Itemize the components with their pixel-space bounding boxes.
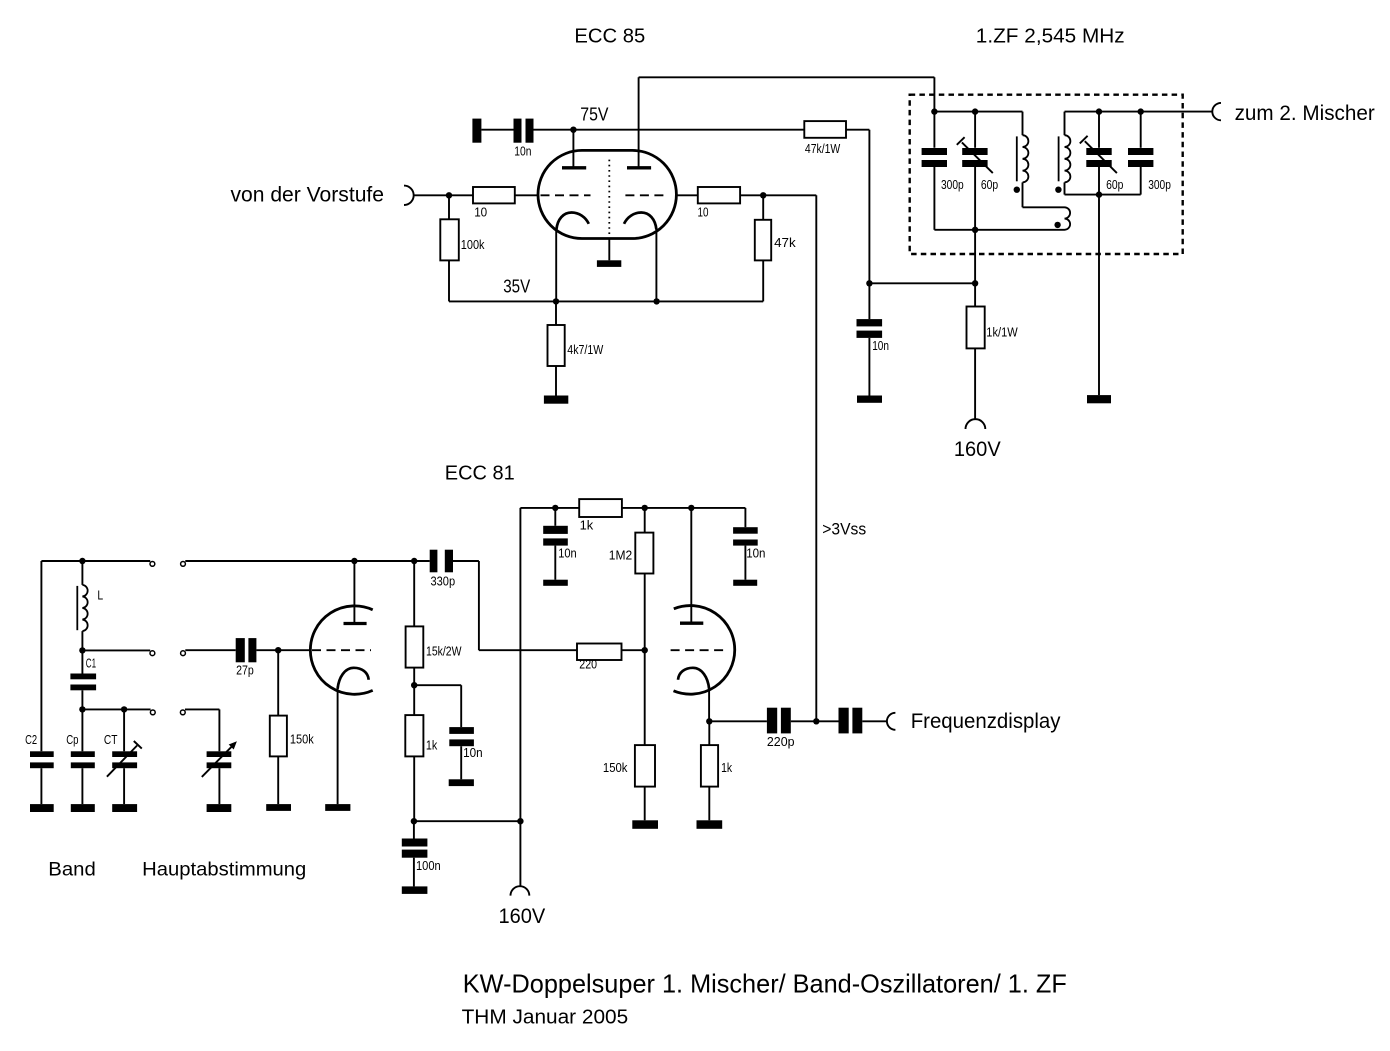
node cathode2/1k — [706, 718, 712, 724]
capacitor 10n (ECC81 left) — [543, 526, 568, 534]
node grid1 ECC85 — [446, 192, 452, 198]
svg-text:ECC 85: ECC 85 — [574, 25, 645, 48]
svg-text:ECC 81: ECC 81 — [445, 462, 515, 485]
wire IF bottom rail left — [934, 229, 1064, 231]
cathode tube2 — [678, 668, 709, 689]
wire cathode2 leg — [708, 686, 710, 721]
wire to 10n — [414, 684, 461, 686]
svg-text:4k7/1W: 4k7/1W — [567, 342, 604, 357]
svg-text:75V: 75V — [580, 104, 608, 124]
svg-text:1k: 1k — [580, 518, 594, 533]
wire band row3 left — [82, 708, 150, 710]
wire 60pR bottom lead — [1098, 167, 1100, 195]
ground (10n) — [857, 396, 882, 403]
node 75V — [570, 127, 576, 133]
svg-text:220p: 220p — [767, 734, 795, 749]
anode plate tube2 — [680, 622, 703, 625]
grid dashed tube2 — [671, 649, 728, 651]
grid 2 dashed ECC85 — [625, 194, 668, 196]
inductor L — [81, 561, 83, 585]
trimmer arrow 60p L — [962, 142, 993, 173]
wire >3Vss vertical — [815, 195, 817, 721]
capacitor 100n — [402, 839, 428, 847]
ground (150k osc) — [266, 804, 291, 811]
wire rail81 right — [622, 507, 746, 509]
wire C2 lead — [40, 561, 42, 751]
terminal Frequenzdisplay — [887, 713, 896, 730]
wire C2 to ground — [40, 768, 42, 804]
svg-text:35V: 35V — [503, 277, 530, 297]
capacitor C2 — [30, 751, 54, 757]
wire node to R 10 — [449, 194, 473, 196]
switch contact row1 R — [181, 562, 186, 567]
resistor 100k — [440, 219, 459, 260]
node >3Vss junction — [813, 718, 819, 724]
wire to Frequenzdisplay — [862, 720, 887, 722]
svg-text:47k/1W: 47k/1W — [805, 141, 841, 156]
node 10n 81L — [552, 505, 558, 511]
ground (tuning cap) — [207, 804, 232, 812]
wire 10nR lead — [744, 508, 746, 527]
wire to 15k/2W — [413, 561, 415, 626]
svg-text:1M2: 1M2 — [609, 548, 632, 563]
capacitor Hauptabstimmung (variable) — [207, 751, 232, 757]
capacitor 60p (left, trimmer) — [962, 148, 987, 155]
resistor 1k/1W — [967, 307, 985, 349]
terminal 160V (bottom) — [511, 886, 530, 895]
node 1k/1W top — [972, 280, 978, 286]
svg-text:10n: 10n — [746, 546, 765, 561]
resistor 1k (rail) — [579, 499, 622, 517]
tube ECC81 triode 1 envelope — [310, 606, 372, 694]
partition dotted ECC85 — [608, 160, 610, 236]
cathode tube1 — [338, 668, 369, 689]
wire 300pR bottom lead — [1140, 167, 1142, 195]
wire osc top rail — [185, 560, 429, 562]
wire anode lead tube2 — [690, 508, 692, 622]
svg-text:zum 2. Mischer: zum 2. Mischer — [1235, 102, 1375, 125]
resistor 1M2 — [635, 533, 653, 574]
wire cathode2 leg — [655, 228, 657, 301]
node 1M2 top — [642, 505, 648, 511]
ground (1k tube2) — [697, 820, 723, 829]
ground (Cp) — [71, 804, 95, 812]
resistor 1k (tube2 cathode) — [701, 745, 718, 787]
wire to 220p — [709, 720, 767, 722]
wire to 4k7 — [555, 301, 557, 325]
wire cathode1 to ground — [337, 686, 339, 804]
core line L — [76, 586, 78, 630]
resistor 150k (osc grid) — [270, 716, 287, 757]
svg-text:Cp: Cp — [66, 732, 78, 747]
wire Cp lead — [81, 709, 83, 751]
variable arrow — [202, 747, 232, 777]
resistor 47k — [755, 220, 771, 261]
node anode tube1 — [351, 558, 357, 564]
trimmer tick 60p L — [957, 137, 965, 145]
wire to tuning cap — [218, 709, 220, 751]
svg-text:1k/1W: 1k/1W — [986, 325, 1018, 340]
ground (rotated bar, top-left) — [472, 119, 481, 143]
node 15k/1k/10n — [411, 682, 417, 688]
trimmer tick CT — [134, 741, 142, 749]
switch contact row3 L — [150, 710, 155, 715]
capacitor CT (trimmer) — [112, 751, 137, 757]
switch contact row2 R — [181, 651, 186, 656]
wire to 100n — [413, 821, 415, 838]
wire 60pL to 1k/1W — [974, 230, 976, 307]
svg-text:1k: 1k — [721, 760, 732, 775]
capacitor 10n (ECC81 right) — [733, 527, 758, 534]
wire 300pL down — [933, 167, 935, 230]
capacitor (output, unlabeled) — [839, 708, 849, 734]
switch contact row3 R — [180, 710, 185, 715]
ground (cathode tube1) — [325, 804, 350, 811]
node cathode1/4k7 — [553, 298, 559, 304]
resistor 150k (tube2 grid) — [635, 745, 655, 787]
ground (100n) — [402, 886, 428, 894]
resistor 220 — [577, 644, 622, 661]
ground (C2) — [30, 804, 54, 812]
trimmer tick 60p R — [1080, 136, 1088, 144]
wire band row1 left — [41, 560, 150, 562]
node CT — [121, 706, 127, 712]
ground (4k7) — [544, 396, 568, 404]
svg-text:Frequenzdisplay: Frequenzdisplay — [911, 710, 1061, 733]
anode plate tube1 — [344, 622, 367, 625]
svg-text:60p: 60p — [1106, 177, 1123, 192]
grid dashed tube1 — [312, 649, 371, 651]
svg-text:1.ZF 2,545 MHz: 1.ZF 2,545 MHz — [976, 24, 1125, 47]
svg-text:220: 220 — [579, 656, 597, 671]
svg-text:27p: 27p — [236, 663, 254, 678]
wire to 1k — [413, 685, 415, 715]
svg-text:300p: 300p — [941, 177, 964, 192]
wire anode2 lead up — [638, 77, 640, 166]
svg-text:Band: Band — [48, 859, 96, 881]
switch contact row2 L — [150, 651, 155, 656]
wire IF rail left — [934, 111, 1022, 113]
node L/C1 — [79, 647, 85, 653]
resistor 4k7/1W — [548, 325, 565, 366]
node cathode2 — [653, 298, 659, 304]
wire 4k7 to ground — [555, 366, 557, 396]
capacitor Cp — [71, 751, 95, 757]
svg-text:C1: C1 — [86, 656, 96, 671]
node 10n/1k1W — [866, 280, 872, 286]
svg-text:160V: 160V — [954, 438, 1001, 461]
capacitor 10n (top-left) — [514, 119, 522, 143]
svg-text:60p: 60p — [981, 177, 998, 192]
wire cathode1 leg — [555, 228, 557, 301]
wire row3 right — [185, 708, 219, 710]
cathode 2 ECC85 — [624, 213, 656, 230]
core line secondary — [1058, 136, 1060, 181]
wire R10 to tube — [515, 194, 539, 196]
node bottom rail L — [972, 227, 978, 233]
wire 47k/1W right — [846, 129, 869, 131]
wire node to 100k — [448, 195, 450, 219]
wire to 1M2 — [644, 508, 646, 533]
wire to 220 — [479, 649, 577, 651]
node 15k top — [411, 558, 417, 564]
wire anode1 lead — [572, 130, 574, 167]
svg-text:15k/2W: 15k/2W — [426, 643, 462, 658]
svg-text:160V: 160V — [499, 905, 546, 928]
resistor 47k/1W — [804, 121, 846, 138]
wire to 150k — [644, 650, 646, 745]
tube ECC81 triode 2 envelope — [674, 606, 735, 695]
node row3/Cp — [79, 706, 85, 712]
ground (ECC85 center) — [597, 260, 621, 267]
svg-text:10n: 10n — [514, 144, 531, 159]
wire ground to 10n — [481, 129, 513, 131]
terminal zum 2. Mischer — [1212, 103, 1221, 120]
node bottom rail R — [1096, 191, 1102, 197]
node 160V line — [517, 818, 523, 824]
wire L bottom — [81, 631, 83, 650]
wire input to node — [414, 194, 449, 196]
wire IF bottom rail right — [1065, 194, 1141, 196]
node anode... grid2 out — [760, 192, 766, 198]
wire 300pR top lead — [1140, 112, 1142, 148]
ground (CT) — [112, 804, 137, 812]
svg-text:10n: 10n — [872, 338, 889, 353]
svg-text:150k: 150k — [603, 760, 628, 775]
ground (10n 81R) — [733, 580, 757, 586]
wire rail81 left — [520, 507, 579, 509]
svg-text:150k: 150k — [290, 732, 314, 747]
wire to 160V line — [414, 820, 521, 822]
capacitor 27p — [236, 638, 245, 662]
polarity dot coupling — [1054, 222, 1060, 228]
svg-text:1k: 1k — [426, 737, 438, 752]
svg-text:100k: 100k — [461, 237, 485, 252]
wire R10r to corner — [740, 194, 816, 196]
wire IF to ground — [1098, 195, 1100, 396]
wire 10n to ground — [868, 338, 870, 396]
node grid tube2 — [642, 647, 648, 653]
wire tube center to ground — [608, 239, 610, 261]
svg-text:L: L — [97, 588, 103, 603]
IF transformer dotted box — [910, 95, 1183, 254]
ground (10n 81L) — [543, 580, 568, 586]
svg-text:300p: 300p — [1148, 177, 1171, 192]
svg-text:CT: CT — [104, 732, 118, 747]
cathode 1 ECC85 — [556, 213, 588, 230]
svg-text:330p: 330p — [431, 574, 456, 589]
wire node to 1k/1W — [869, 282, 975, 284]
capacitor 10n (osc cathode) — [449, 727, 474, 734]
wire IF rail right to terminal — [1065, 111, 1213, 113]
anode plate 1 ECC85 — [562, 166, 586, 169]
svg-text:10: 10 — [698, 204, 709, 219]
wire row2 to 27p — [185, 649, 235, 651]
wire 60pR top lead — [1098, 112, 1100, 148]
wire tube to R 10 right — [676, 194, 697, 196]
wire to C1 — [81, 650, 83, 673]
node IF rail L — [931, 108, 937, 114]
capacitor 220p — [767, 708, 777, 734]
node anode tube2 — [688, 505, 694, 511]
wire 220p to node — [791, 720, 839, 722]
svg-text:KW-Doppelsuper 1. Mischer/ Ban: KW-Doppelsuper 1. Mischer/ Band-Oszillat… — [463, 968, 1067, 998]
inductor coupling winding — [1065, 207, 1071, 230]
ground (150k) — [632, 820, 658, 829]
node grid tube1 — [275, 647, 281, 653]
svg-text:Hauptabstimmung: Hauptabstimmung — [142, 859, 306, 881]
wire 47k to rail — [762, 260, 764, 301]
ground (IF secondary) — [1087, 395, 1111, 403]
resistor 15k/2W — [406, 626, 424, 667]
svg-text:47k: 47k — [774, 235, 796, 250]
wire 100k to 35V rail — [448, 260, 450, 301]
core line primary — [1016, 136, 1018, 181]
node 60pR top — [1096, 108, 1102, 114]
capacitor 330p — [430, 550, 438, 573]
wire 160V feed — [519, 508, 521, 886]
trimmer arrow CT — [107, 746, 137, 777]
capacitor 60p (right, trimmer) — [1086, 148, 1111, 155]
wire 10nL lead — [554, 508, 556, 526]
wire CT lead — [123, 709, 125, 751]
inductor IF primary — [1022, 112, 1024, 136]
tube ECC85 envelope — [538, 150, 676, 238]
wire into IF primary — [933, 77, 935, 148]
terminal 160V (top) — [966, 419, 986, 429]
wire 60pL down — [974, 167, 976, 230]
svg-text:10n: 10n — [463, 745, 483, 760]
node 100n/160V — [411, 818, 417, 824]
wire 35V rail — [449, 300, 763, 302]
svg-text:100n: 100n — [416, 858, 441, 873]
wire 60pL lead — [974, 112, 976, 148]
svg-text:THM Januar 2005: THM Januar 2005 — [462, 1007, 629, 1029]
wire to 1k — [708, 721, 710, 745]
wire 1k/1W to 160V — [974, 348, 976, 419]
svg-text:10: 10 — [474, 204, 487, 219]
wire 27p to tube1 — [256, 649, 310, 651]
polarity dot primary — [1014, 187, 1020, 193]
capacitor 10n (right of ECC85) — [857, 319, 883, 326]
svg-text:von der Vorstufe: von der Vorstufe — [231, 184, 385, 207]
inductor IF secondary — [1064, 112, 1066, 136]
wire to 47k — [762, 195, 764, 220]
svg-text:>3Vss: >3Vss — [822, 520, 866, 539]
wire to 150k — [277, 650, 279, 715]
polarity dot secondary — [1055, 187, 1061, 193]
grid 1 dashed ECC85 — [541, 194, 591, 196]
node 300pR top — [1138, 108, 1144, 114]
ground (10n osc) — [449, 779, 474, 786]
wire down to 10n — [868, 130, 870, 319]
wire anode2 to IF — [639, 76, 935, 78]
wire C1 bottom — [81, 690, 83, 709]
resistor 10 (left) — [473, 187, 515, 203]
svg-text:C2: C2 — [25, 732, 37, 747]
switch contact row1 L — [150, 562, 155, 567]
node L top — [79, 558, 85, 564]
capacitor 300p (left) — [922, 148, 947, 155]
wire 75V rail — [534, 129, 805, 131]
anode plate 2 ECC85 — [627, 166, 651, 169]
resistor 10 (right) — [698, 187, 740, 203]
wire band row2 left — [82, 649, 150, 651]
wire 330p down — [478, 561, 480, 650]
capacitor C1 — [70, 674, 96, 680]
capacitor 300p (right) — [1128, 148, 1153, 155]
node 60p L top — [972, 108, 978, 114]
wire anode lead tube1 — [353, 561, 355, 622]
trimmer arrow 60p R — [1085, 141, 1117, 173]
svg-text:10n: 10n — [558, 546, 577, 561]
resistor 1k (osc) — [405, 715, 423, 756]
